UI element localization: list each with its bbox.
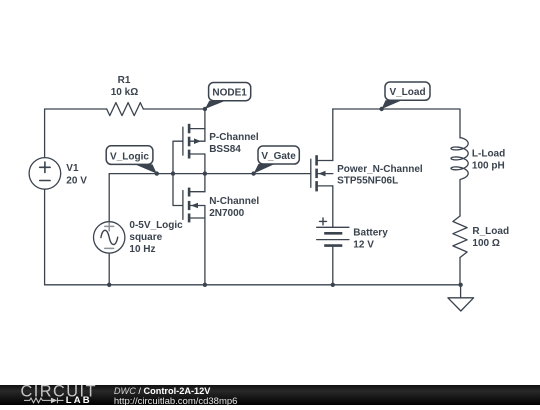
svg-text:STP55NF06L: STP55NF06L: [337, 176, 398, 187]
junction dot V_Gate anchor: [251, 171, 255, 175]
inductor L-Load: [451, 138, 468, 180]
junction dot ground at bottom rail: [458, 283, 462, 287]
logo mini schematic resistor and diode: [24, 398, 64, 404]
wire top right rail: [333, 109, 460, 138]
voltage source VLogic 0-5V square: [94, 222, 125, 253]
svg-text:V_Gate: V_Gate: [261, 151, 296, 162]
junction dot battery at bottom rail: [331, 283, 335, 287]
svg-text:0-5V_Logic: 0-5V_Logic: [129, 220, 183, 231]
junction dot NODE1: [203, 107, 207, 111]
svg-text:V_Load: V_Load: [389, 87, 425, 98]
svg-text:V_Logic: V_Logic: [110, 151, 149, 162]
junction dot V_Load anchor: [379, 107, 383, 111]
transistor P-channel BSS84: [183, 124, 205, 159]
transistor Power_N-Channel STP55NF06L: [311, 155, 333, 191]
svg-text:Power_N-Channel: Power_N-Channel: [337, 164, 423, 175]
wire VLogic bottom to bottom rail: [108, 253, 110, 285]
transistor N-channel 2N7000: [183, 188, 205, 223]
svg-text:square: square: [129, 232, 162, 243]
junction dot V_Logic anchor: [155, 171, 159, 175]
wire N-channel source down to bottom rail: [204, 206, 206, 285]
wire R_Load to bottom rail: [459, 258, 461, 285]
svg-text:R1: R1: [118, 75, 131, 86]
svg-text:R_Load: R_Load: [472, 226, 509, 237]
svg-text:V1: V1: [66, 163, 79, 174]
svg-text:10 Hz: 10 Hz: [129, 244, 155, 255]
svg-text:http://circuitlab.com/cd38mp6: http://circuitlab.com/cd38mp6: [114, 396, 238, 405]
wire logic rail down to N-channel drain: [204, 174, 206, 192]
resistor R1: [107, 103, 144, 116]
svg-text:10 kΩ: 10 kΩ: [111, 87, 138, 98]
ground: [448, 285, 474, 311]
svg-text:P-Channel: P-Channel: [209, 132, 259, 143]
wire P-channel drain down to logic rail: [204, 154, 206, 174]
wire VLogic top riser to logic rail: [108, 174, 110, 222]
svg-text:100 pH: 100 pH: [472, 160, 505, 171]
junction dot P/N drain on rail: [203, 171, 207, 175]
net flag V_Load: [382, 82, 430, 109]
wire gate link P and N: [173, 141, 183, 205]
resistor R_Load: [453, 216, 467, 258]
svg-text:LAB: LAB: [66, 395, 92, 405]
junction dot gate link on rail: [171, 171, 175, 175]
battery 12V: [317, 218, 349, 246]
svg-text:20 V: 20 V: [66, 176, 87, 187]
wire logic rail: [109, 173, 311, 175]
wire inductor to R_Load: [459, 180, 461, 216]
svg-text:2N7000: 2N7000: [209, 208, 244, 219]
wire NODE1 down to P-channel source/body: [204, 109, 206, 141]
wire V1 bottom to bottom rail: [44, 189, 46, 285]
net flag V_Gate: [254, 146, 300, 174]
svg-text:L-Load: L-Load: [472, 148, 505, 159]
junction dot VLogic source at bottom rail: [107, 283, 111, 287]
voltage source V1: [29, 158, 61, 190]
svg-text:DWC / Control-2A-12V: DWC / Control-2A-12V: [114, 386, 211, 396]
svg-text:12 V: 12 V: [353, 240, 374, 251]
svg-text:NODE1: NODE1: [212, 88, 247, 99]
junction dot N-channel source at bottom rail: [203, 283, 207, 287]
net flag V_Logic: [106, 146, 157, 174]
wire battery minus to bottom rail: [332, 246, 334, 285]
svg-text:100 Ω: 100 Ω: [472, 238, 499, 249]
wire top-left from V1 to R1: [45, 109, 107, 158]
wire power mosfet drain up to V_Load rail: [332, 109, 334, 161]
net flag NODE1: [205, 83, 251, 110]
wire R1 to NODE1: [143, 108, 205, 110]
svg-text:Battery: Battery: [353, 228, 388, 239]
wire bottom rail: [45, 284, 461, 286]
svg-text:BSS84: BSS84: [209, 144, 241, 155]
svg-text:N-Channel: N-Channel: [209, 196, 259, 207]
wire power mosfet source down to battery: [332, 186, 334, 227]
